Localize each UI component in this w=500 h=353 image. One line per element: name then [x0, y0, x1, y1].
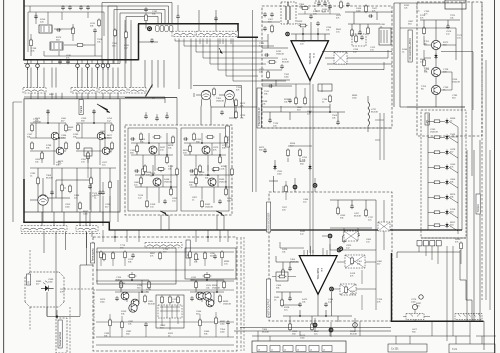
label box VERT OUTPUT: [267, 279, 271, 317]
diode D784: [445, 164, 448, 170]
test point: [338, 246, 343, 251]
capacitor C801: [350, 204, 354, 209]
tuner circle B202: [225, 90, 235, 100]
svg-text:1N4148: 1N4148: [216, 100, 224, 102]
wire: [43, 68, 45, 88]
wire: [255, 37, 257, 135]
adjust arrow: [216, 211, 224, 216]
resistor R603: [76, 44, 85, 47]
svg-text:BC548: BC548: [148, 303, 155, 305]
wire: [195, 230, 197, 242]
wire: [337, 261, 376, 263]
wire: [77, 60, 79, 70]
resistor: [100, 250, 103, 259]
resistor: [77, 123, 80, 132]
resistor: [340, 0, 343, 9]
resistor: [153, 136, 162, 139]
module box: [344, 231, 358, 241]
IR diode D901: [41, 281, 54, 291]
resistor: [109, 318, 112, 327]
capacitor: [268, 84, 273, 88]
resistor: [433, 151, 442, 154]
resistor: [144, 164, 147, 173]
wire: [90, 168, 92, 212]
transistor T102a: [97, 132, 105, 140]
resistor: [176, 167, 179, 176]
resistor: [433, 224, 442, 227]
test point: [313, 183, 318, 188]
wire: [64, 288, 94, 290]
connector strip: [71, 88, 97, 93]
wire: [91, 68, 93, 88]
svg-text:1N4148: 1N4148: [219, 181, 227, 183]
wire: [55, 68, 57, 88]
wire: [203, 39, 278, 59]
capacitor: [163, 199, 167, 204]
transistor T203: [153, 178, 161, 186]
junction: [114, 236, 116, 238]
wire: [460, 250, 472, 321]
svg-text:100n: 100n: [411, 301, 417, 303]
wire: [419, 246, 438, 264]
output cell T402: [190, 272, 224, 304]
power amp module box: [269, 192, 392, 321]
resistor R761: [423, 26, 426, 35]
wire: [485, 60, 487, 300]
svg-text:TDA 3653: TDA 3653: [316, 267, 320, 279]
wire: [64, 188, 90, 210]
wire: [283, 310, 352, 324]
wire: [206, 39, 208, 45]
wire: [397, 252, 460, 258]
wire: [391, 253, 393, 321]
test point: [329, 287, 334, 292]
capacitor: [183, 137, 188, 141]
resistor R122: [61, 183, 64, 192]
wire: [144, 60, 146, 88]
resistor R602: [72, 26, 75, 35]
resistor R651: [299, 24, 308, 27]
wire: [99, 168, 101, 212]
svg-text:1N4148: 1N4148: [212, 287, 220, 289]
terminal cell: [257, 346, 267, 352]
transistor T762: [431, 67, 440, 76]
svg-text:BC548: BC548: [46, 177, 53, 179]
trimmer R921: [412, 304, 417, 309]
left border wire: [3, 0, 5, 353]
wire: [110, 325, 228, 337]
resistor: [311, 322, 314, 331]
resistor: [433, 196, 442, 199]
wire: [255, 135, 257, 176]
capacitor: [263, 26, 267, 31]
IR sensor box: [25, 272, 64, 307]
resistor: [120, 280, 123, 289]
FM demod module box: [125, 125, 232, 215]
wire: [87, 156, 89, 178]
wire: [457, 127, 459, 234]
wire: [483, 321, 485, 350]
wire: [80, 264, 93, 266]
resistor R611: [145, 13, 148, 22]
junction: [206, 279, 208, 281]
wire: [164, 97, 166, 103]
resistor: [177, 295, 180, 304]
transistor T102b: [102, 147, 110, 155]
svg-text:Cx 201: Cx 201: [391, 348, 399, 351]
op-amp U1 TDA video IC: [291, 41, 329, 81]
capacitor: [130, 137, 135, 141]
junction: [302, 33, 304, 35]
wire: [125, 97, 177, 99]
svg-text:100n: 100n: [277, 173, 283, 175]
wire: [431, 321, 433, 336]
wire: [109, 93, 111, 99]
resistor: [140, 132, 143, 141]
socket B301: [38, 195, 48, 205]
cell frame: [181, 128, 229, 211]
wire: [37, 68, 39, 88]
wire: [235, 107, 237, 112]
sub box L: [97, 248, 176, 284]
wire: [108, 222, 110, 230]
pen mark: [146, 85, 153, 97]
wire: [473, 150, 475, 321]
wire: [113, 10, 115, 64]
capacitor: [263, 12, 267, 17]
resistor: [433, 166, 442, 169]
transistor T101a: [51, 132, 59, 140]
wire: [309, 128, 311, 176]
resistor: [189, 250, 192, 259]
wire: [391, 320, 484, 322]
junction: [131, 279, 133, 281]
wire: [61, 93, 63, 99]
wire: [47, 307, 80, 317]
svg-text:Bedieneinheit: Bedieneinheit: [59, 332, 62, 347]
wire: [240, 237, 242, 351]
wire: [178, 39, 180, 90]
svg-text:TUNER: TUNER: [477, 204, 480, 213]
wire: [29, 307, 31, 330]
svg-text:1N4148: 1N4148: [164, 181, 172, 183]
capacitor C652: [316, 21, 320, 26]
wire: [460, 250, 462, 264]
wire: [44, 45, 102, 56]
wire: [37, 168, 39, 212]
capacitor: [34, 14, 38, 19]
control box: [56, 318, 67, 353]
resistor: [219, 294, 222, 303]
resistor: [433, 211, 442, 214]
wire: [109, 229, 463, 231]
sub box R: [185, 248, 236, 279]
resistor: [193, 132, 196, 141]
panel top edge: [24, 96, 165, 98]
output cell T401: [115, 272, 149, 304]
wire: [37, 93, 39, 99]
svg-text:o1: o1: [271, 350, 273, 352]
wire: [230, 39, 232, 45]
svg-text:BC548: BC548: [354, 215, 361, 217]
resistor: [146, 199, 149, 208]
wire: [23, 221, 109, 223]
amplifier cell T101: [30, 110, 66, 165]
wire: [233, 39, 286, 82]
capacitor: [92, 109, 96, 114]
resistor: [287, 148, 290, 157]
delay line: [381, 30, 387, 43]
wire: [55, 232, 57, 318]
capacitor: [214, 16, 218, 21]
label frame: [84, 148, 92, 156]
transistor T403: [203, 292, 211, 300]
test point: [337, 248, 342, 253]
transistor T401a: [121, 292, 129, 300]
adjust arrow: [160, 211, 168, 216]
transistor T401b: [131, 299, 139, 307]
resistor: [31, 141, 34, 150]
resistor R619: [125, 30, 128, 39]
resistor: [166, 155, 169, 164]
module box: [334, 52, 347, 64]
wire: [330, 200, 376, 250]
label frame: [318, 84, 332, 91]
capacitor C661: [358, 30, 362, 35]
svg-text:AB: AB: [426, 120, 429, 124]
wire: [101, 222, 103, 230]
pot frame: [276, 272, 288, 281]
capacitor C641: [317, 1, 321, 6]
wire: [102, 60, 104, 70]
connector strip: [197, 31, 239, 36]
wire: [312, 128, 314, 176]
capacitor: [150, 38, 154, 43]
wire: [101, 259, 222, 266]
wire: [86, 232, 88, 265]
wire: [237, 23, 239, 37]
svg-text:o0: o0: [258, 350, 260, 352]
wire: [384, 50, 388, 70]
wire: [428, 225, 458, 231]
resistor: [231, 167, 234, 176]
capacitor: [134, 169, 139, 173]
wire: [280, 242, 304, 248]
pin box: [165, 26, 169, 32]
diode D761: [434, 53, 437, 59]
resistor: [195, 176, 198, 185]
resistor R671: [295, 96, 298, 105]
resistor: [142, 167, 145, 176]
wire: [435, 20, 437, 107]
wire: [175, 39, 268, 42]
wire: [291, 22, 330, 40]
junction: [317, 33, 319, 35]
diode D782: [445, 134, 448, 140]
wire: [396, 321, 496, 344]
resistor: [148, 280, 151, 289]
resistor: [112, 251, 115, 260]
capacitor: [190, 296, 194, 301]
capacitor C803: [356, 232, 360, 237]
test point: [293, 185, 298, 190]
label box TUNER: [476, 194, 480, 214]
diode D781: [445, 118, 448, 124]
demod cell T203: [135, 165, 177, 203]
wire: [87, 93, 89, 99]
module frame: [352, 34, 366, 46]
wire: [107, 6, 109, 64]
svg-text:100n: 100n: [100, 301, 106, 303]
demod cell T202: [184, 133, 226, 171]
junction: [148, 142, 150, 144]
wire: [79, 265, 81, 316]
wire: [367, 126, 369, 132]
wire: [109, 168, 111, 212]
resistor: [159, 251, 162, 260]
resistor: [289, 322, 292, 331]
junction: [207, 236, 209, 238]
cap frame: [315, 1, 329, 11]
wire: [394, 3, 465, 107]
svg-text:RGB DECODER: RGB DECODER: [268, 212, 271, 230]
aux box2: [449, 344, 495, 353]
resistor: [215, 316, 218, 325]
resistor R673: [329, 94, 332, 103]
junction: [58, 137, 60, 139]
connector point: [76, 64, 80, 68]
wire: [160, 215, 162, 230]
resistor R661: [351, 28, 354, 37]
wire: [126, 16, 158, 18]
wire: [31, 24, 95, 56]
connector X781: [423, 241, 428, 246]
wire: [379, 113, 381, 160]
resistor: [140, 176, 143, 185]
wire: [210, 39, 266, 65]
capacitor: [46, 109, 50, 114]
resistor: [195, 280, 198, 289]
wire: [295, 178, 315, 192]
wire: [157, 60, 159, 88]
right border wire: [494, 0, 496, 353]
video module box: [262, 6, 392, 128]
wire: [112, 68, 114, 88]
resistor: [204, 251, 207, 260]
wire: [102, 212, 104, 226]
label box ZF: [186, 240, 190, 258]
wire: [223, 215, 225, 230]
junction: [216, 291, 218, 293]
svg-text:1N4148: 1N4148: [430, 131, 438, 133]
resistor R641: [271, 24, 274, 33]
capacitor: [131, 253, 135, 258]
wire: [27, 68, 29, 88]
svg-text:1N4148: 1N4148: [33, 121, 41, 123]
wire: [43, 60, 45, 64]
resistor R811: [282, 268, 285, 277]
connector strip: [21, 226, 67, 231]
wire: [107, 68, 109, 88]
wire: [441, 72, 452, 90]
wire: [219, 39, 221, 45]
wire: [274, 160, 276, 166]
svg-text:o4: o4: [310, 350, 312, 352]
adjust arrow: [219, 48, 223, 54]
capacitor: [56, 28, 61, 32]
wire: [458, 314, 481, 317]
capacitor C647: [280, 64, 284, 69]
wire: [345, 5, 392, 24]
capacitor C231: [220, 110, 224, 115]
wire: [81, 60, 83, 64]
svg-text:100n: 100n: [48, 281, 54, 283]
wire: [89, 212, 91, 226]
wire: [168, 6, 170, 24]
resistor R647: [267, 70, 270, 79]
wire: [276, 292, 302, 300]
wire: [96, 290, 234, 322]
resistor: [212, 168, 221, 171]
wire: [283, 304, 300, 306]
wire: [87, 60, 89, 70]
test point: [329, 328, 334, 333]
connector point: [353, 323, 358, 328]
capacitor C122: [98, 190, 102, 195]
resistor R232: [235, 110, 238, 119]
wire: [276, 256, 299, 270]
capacitor: [159, 167, 163, 172]
wire: [177, 19, 179, 31]
junction: [141, 291, 143, 293]
wire: [102, 230, 104, 242]
resistor: [111, 141, 114, 150]
diode D787: [445, 209, 448, 215]
capacitor C603: [79, 5, 83, 10]
capacitor C605: [93, 28, 97, 33]
svg-text:THERMISTOR AT: THERMISTOR AT: [258, 107, 261, 127]
wire: [95, 93, 97, 99]
svg-text:FM DEMODULATOR: FM DEMODULATOR: [409, 38, 412, 61]
transistor T761: [431, 40, 440, 49]
wire: [427, 114, 429, 230]
test point: [328, 234, 333, 239]
wire: [285, 181, 287, 200]
wire: [30, 60, 32, 64]
resistor R302: [79, 201, 82, 210]
wire: [312, 176, 314, 192]
wire: [219, 230, 221, 242]
wire: [13, 101, 22, 103]
resistor: [221, 250, 224, 259]
wire: [215, 10, 217, 31]
resistor: [121, 320, 124, 329]
junction: [166, 154, 168, 156]
wire: [330, 228, 372, 236]
label box AB: [425, 113, 429, 125]
wire: [176, 98, 178, 126]
wire: [420, 20, 460, 60]
transistor T402b: [206, 299, 214, 307]
wire: [262, 80, 292, 86]
IF amplifier module box: [24, 99, 120, 212]
capacitor: [298, 302, 302, 307]
wire: [312, 192, 314, 253]
svg-text:BC: BC: [421, 88, 424, 90]
connector strip: [172, 31, 195, 36]
capacitor: [144, 322, 148, 327]
wire: [138, 230, 140, 242]
